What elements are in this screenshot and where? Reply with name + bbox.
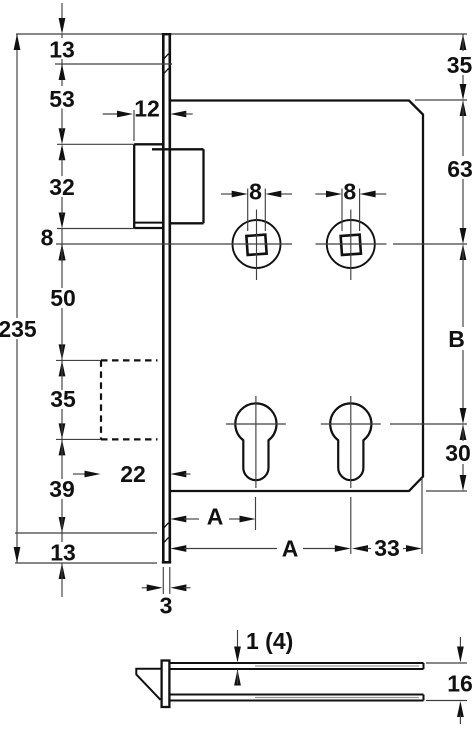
- svg-text:35: 35: [447, 52, 473, 78]
- svg-text:A: A: [207, 504, 224, 530]
- svg-text:8: 8: [343, 179, 356, 205]
- svg-text:53: 53: [49, 86, 75, 112]
- svg-text:32: 32: [49, 174, 75, 200]
- svg-text:50: 50: [50, 285, 76, 311]
- svg-text:39: 39: [49, 476, 75, 502]
- svg-text:16: 16: [447, 671, 473, 697]
- svg-text:1 (4): 1 (4): [246, 628, 293, 654]
- svg-text:13: 13: [50, 540, 76, 566]
- svg-text:B: B: [448, 326, 465, 352]
- svg-text:33: 33: [374, 535, 400, 561]
- svg-text:35: 35: [50, 386, 76, 412]
- svg-text:12: 12: [134, 96, 160, 122]
- svg-text:22: 22: [120, 461, 146, 487]
- svg-text:235: 235: [0, 316, 37, 342]
- svg-text:3: 3: [160, 593, 173, 619]
- svg-text:8: 8: [41, 225, 54, 251]
- svg-text:30: 30: [445, 440, 471, 466]
- svg-text:8: 8: [249, 179, 262, 205]
- svg-text:A: A: [282, 536, 299, 562]
- svg-text:63: 63: [447, 156, 473, 182]
- svg-text:13: 13: [49, 37, 75, 63]
